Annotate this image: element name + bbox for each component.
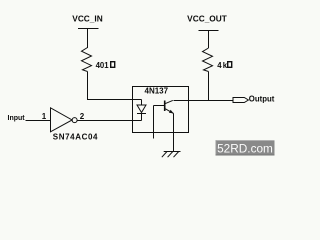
watermark 52RD.com — [216, 140, 275, 156]
svg-text:SN74AC04: SN74AC04 — [53, 133, 98, 142]
wire emitter to ground — [173, 113, 175, 151]
ground — [162, 152, 181, 158]
svg-text:VCC_OUT: VCC_OUT — [187, 13, 227, 23]
phototransistor inside 4N137 — [154, 100, 174, 113]
svg-text:52RD.com: 52RD.com — [217, 141, 273, 155]
svg-text:401: 401 — [96, 61, 110, 70]
svg-text:k: k — [223, 61, 228, 70]
svg-text:4: 4 — [217, 61, 222, 70]
svg-text:1: 1 — [42, 112, 47, 121]
wire R1 to LED anode — [88, 72, 142, 100]
power flag VCC_IN — [72, 13, 102, 28]
svg-text:Output: Output — [249, 94, 275, 103]
resistor R1 401 ohm — [82, 48, 115, 72]
wire VCC_IN to R1 — [87, 29, 89, 49]
wire VCC_OUT to R2 — [208, 31, 210, 49]
wire U1 output to LED cathode — [77, 120, 141, 122]
base pin stub — [153, 106, 155, 139]
wire Input to U1 pin 1 — [26, 120, 51, 122]
svg-text:Input: Input — [8, 115, 26, 122]
svg-text:2: 2 — [80, 112, 85, 121]
power flag VCC_OUT — [187, 13, 227, 30]
LED inside 4N137 — [137, 100, 146, 121]
svg-text:4N137: 4N137 — [145, 87, 169, 96]
resistor R2 4k ohm — [203, 48, 232, 72]
svg-text:VCC_IN: VCC_IN — [72, 13, 102, 23]
inverter U1 SN74AC04 — [51, 108, 99, 142]
port Output — [233, 94, 275, 103]
wire collector to output junction — [174, 100, 234, 102]
wire R2 to output junction — [208, 72, 210, 101]
optocoupler U2 4N137 box — [133, 87, 189, 133]
